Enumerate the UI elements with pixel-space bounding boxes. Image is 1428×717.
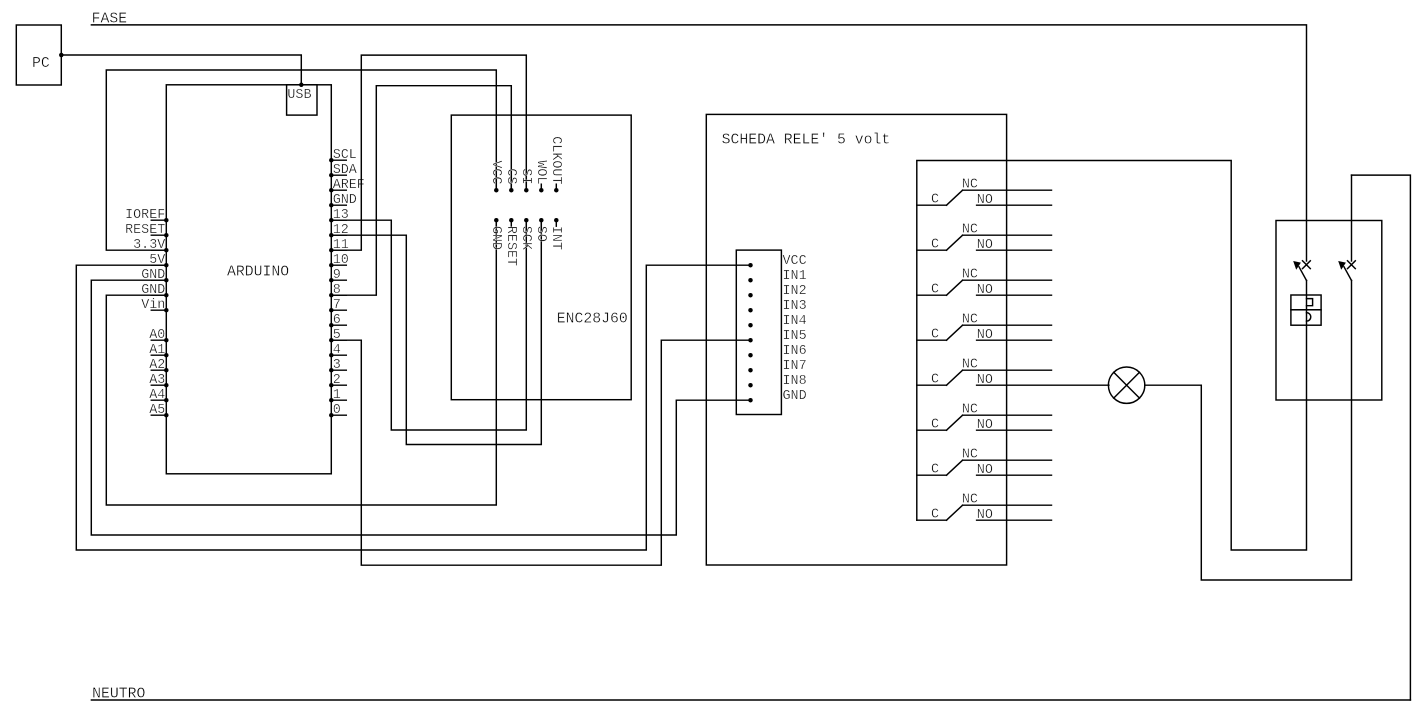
relay board box SCHEDA RELE' 5 volt [706, 114, 1006, 565]
relay K2 [917, 223, 1052, 253]
pin INT (ENC bottom) [555, 220, 557, 226]
svg-text:SDA: SDA [333, 163, 358, 178]
svg-text:C: C [931, 463, 939, 478]
svg-text:9: 9 [333, 268, 341, 283]
svg-text:VCC: VCC [488, 160, 503, 184]
pin GND (Arduino left) [151, 279, 166, 281]
svg-text:6: 6 [333, 313, 341, 328]
pin 7 (Arduino right) [331, 309, 346, 311]
wire 5V to relay VCC [76, 265, 750, 550]
pin 5V (Arduino left) [151, 264, 166, 266]
pin RESET (ENC bottom) [510, 220, 512, 226]
svg-text:NO: NO [977, 508, 993, 523]
wire 3.3V to ENC VCC [106, 70, 496, 250]
svg-text:C: C [931, 238, 939, 253]
pin IN8 (connector J1) [748, 383, 753, 388]
pin A4 (Arduino left) [151, 399, 166, 401]
relay K8 [917, 493, 1052, 523]
relay K7 [917, 448, 1052, 478]
svg-text:A4: A4 [149, 388, 165, 403]
pin 2 (Arduino right) [331, 384, 346, 386]
svg-text:NO: NO [977, 193, 993, 208]
pin IN5 (connector J1) [748, 338, 753, 343]
svg-text:1: 1 [333, 388, 341, 403]
pin SO (ENC bottom) [540, 220, 542, 235]
svg-text:3: 3 [333, 358, 341, 373]
svg-text:IN1: IN1 [783, 269, 807, 284]
pin 13 (Arduino right) [331, 219, 346, 221]
svg-text:AREF: AREF [333, 178, 365, 193]
pin IN7 (connector J1) [748, 368, 753, 373]
pin 5 (Arduino right) [331, 339, 346, 341]
pin 3 (Arduino right) [331, 369, 346, 371]
svg-text:IN4: IN4 [783, 314, 807, 329]
pin CLKOUT (ENC top) [555, 184, 557, 190]
svg-text:SCL: SCL [333, 148, 357, 163]
pin 6 (Arduino right) [331, 324, 346, 326]
pin RESET (Arduino left) [151, 234, 166, 236]
svg-text:INT: INT [548, 226, 563, 250]
pin SDA (Arduino right) [331, 174, 346, 176]
svg-text:NC: NC [962, 268, 978, 283]
svg-text:IN6: IN6 [783, 344, 807, 359]
pin VCC (ENC top) [495, 175, 497, 190]
pin IN4 (connector J1) [748, 323, 753, 328]
wire pin13 to ENC SCK [331, 220, 526, 430]
pin AREF (Arduino right) [331, 189, 346, 191]
svg-text:4: 4 [333, 343, 341, 358]
wall box [1276, 221, 1382, 401]
svg-text:WOL: WOL [533, 160, 548, 184]
wire relay C bus + feed from switch S1 [917, 161, 1307, 551]
wire pin5 to relay IN5 [331, 340, 750, 565]
pin A5 (Arduino left) [151, 414, 166, 416]
connector J1 box [736, 250, 781, 414]
svg-text:IN2: IN2 [783, 284, 807, 299]
svg-text:GND: GND [783, 389, 807, 404]
svg-text:SCHEDA RELE' 5 volt: SCHEDA RELE' 5 volt [722, 132, 891, 148]
svg-text:CLKOUT: CLKOUT [548, 136, 563, 184]
svg-text:10: 10 [333, 253, 349, 268]
pin WOL (ENC top) [540, 184, 542, 190]
wire pin8 to ENC CS [331, 86, 511, 296]
relay K5 [917, 358, 1109, 388]
switch S2 [1338, 175, 1355, 280]
svg-text:IOREF: IOREF [125, 208, 165, 223]
svg-text:GND: GND [488, 226, 503, 250]
pin 8 (Arduino right) [331, 294, 346, 296]
op-amp U1 ARDUINO box [166, 85, 331, 474]
svg-text:IN3: IN3 [783, 299, 807, 314]
svg-text:NC: NC [962, 178, 978, 193]
svg-text:NC: NC [962, 448, 978, 463]
pin IN2 (connector J1) [748, 293, 753, 298]
svg-text:NC: NC [962, 223, 978, 238]
pin SCK (ENC bottom) [525, 220, 527, 235]
pin Vin (Arduino left) [151, 309, 166, 311]
pin 1 (Arduino right) [331, 399, 346, 401]
svg-text:A1: A1 [149, 343, 165, 358]
pin 9 (Arduino right) [331, 279, 346, 281]
pin A2 (Arduino left) [151, 369, 166, 371]
svg-text:USB: USB [287, 88, 311, 103]
svg-text:ARDUINO: ARDUINO [227, 265, 289, 281]
svg-text:C: C [931, 283, 939, 298]
socket (presa) [1291, 295, 1321, 325]
svg-text:NO: NO [977, 418, 993, 433]
wire FASE horizontal + drop to switch S1 [91, 25, 1306, 261]
svg-text:C: C [931, 373, 939, 388]
pin 11 (Arduino right) [331, 249, 346, 251]
svg-text:SI: SI [518, 168, 533, 184]
relay K3 [917, 268, 1052, 298]
svg-text:A3: A3 [149, 373, 165, 388]
svg-text:CS: CS [503, 168, 518, 184]
svg-text:VCC: VCC [783, 254, 807, 269]
wire GND2 to ENC GND [106, 220, 496, 505]
pin IOREF (Arduino left) [151, 219, 166, 221]
PC box [16, 25, 61, 85]
pin CS (ENC top) [510, 175, 512, 190]
svg-text:IN7: IN7 [783, 359, 807, 374]
svg-text:A2: A2 [149, 358, 165, 373]
svg-text:NC: NC [962, 493, 978, 508]
wire switch S2 to NEUTRO [1352, 175, 1411, 700]
svg-text:GND: GND [333, 193, 357, 208]
switch S1 [1293, 261, 1310, 281]
pin 10 (Arduino right) [331, 264, 346, 266]
svg-text:A5: A5 [149, 403, 165, 418]
svg-text:Vin: Vin [141, 298, 165, 313]
pin 4 (Arduino right) [331, 354, 346, 356]
pin IN1 (connector J1) [748, 278, 753, 283]
pin SI (ENC top) [525, 175, 527, 190]
wire GND to relay GND [91, 280, 750, 535]
pin A3 (Arduino left) [151, 384, 166, 386]
svg-text:NO: NO [977, 328, 993, 343]
pin VCC (connector J1) [748, 263, 753, 268]
svg-text:C: C [931, 418, 939, 433]
svg-text:IN8: IN8 [783, 374, 807, 389]
wire PC to USB [61, 55, 301, 85]
pin GND (connector J1) [748, 398, 753, 403]
svg-text:ENC28J60: ENC28J60 [557, 312, 628, 328]
svg-text:NO: NO [977, 373, 993, 388]
svg-text:C: C [931, 328, 939, 343]
wire pin12 to ENC SO [331, 220, 541, 444]
svg-text:NC: NC [962, 313, 978, 328]
pin IN6 (connector J1) [748, 353, 753, 358]
pin 12 (Arduino right) [331, 234, 346, 236]
pin A1 (Arduino left) [151, 354, 166, 356]
svg-text:SCK: SCK [518, 226, 533, 251]
svg-text:7: 7 [333, 298, 341, 313]
svg-text:NO: NO [977, 283, 993, 298]
pin GND (ENC bottom) [495, 220, 497, 235]
svg-text:IN5: IN5 [783, 329, 807, 344]
relay K6 [917, 403, 1052, 433]
svg-text:PC: PC [32, 56, 50, 72]
wire pin11 to ENC SI [331, 55, 526, 250]
svg-text:0: 0 [333, 403, 341, 418]
op-amp U2 ENC28J60 box [451, 115, 631, 400]
pin GND (Arduino right) [331, 204, 346, 206]
svg-text:RESET: RESET [503, 226, 518, 266]
relay K1 [917, 178, 1052, 208]
svg-text:NC: NC [962, 403, 978, 418]
lamp X1 [1108, 367, 1144, 403]
svg-text:C: C [931, 508, 939, 523]
wire NEUTRO horizontal [91, 699, 1410, 701]
svg-text:NC: NC [962, 358, 978, 373]
pin SCL (Arduino right) [331, 159, 346, 161]
USB connector [287, 85, 317, 115]
svg-text:NO: NO [977, 463, 993, 478]
svg-text:NO: NO [977, 238, 993, 253]
pin 3.3V (Arduino left) [151, 249, 166, 251]
pin IN3 (connector J1) [748, 308, 753, 313]
wire lamp to switch S2 [1145, 281, 1352, 581]
svg-text:A0: A0 [149, 328, 165, 343]
relay K4 [917, 313, 1052, 343]
svg-text:RESET: RESET [125, 223, 165, 238]
pin GND (Arduino left) [151, 294, 166, 296]
svg-text:SO: SO [533, 226, 548, 242]
svg-text:2: 2 [333, 373, 341, 388]
pin 0 (Arduino right) [331, 414, 346, 416]
svg-text:C: C [931, 193, 939, 208]
pin A0 (Arduino left) [151, 339, 166, 341]
